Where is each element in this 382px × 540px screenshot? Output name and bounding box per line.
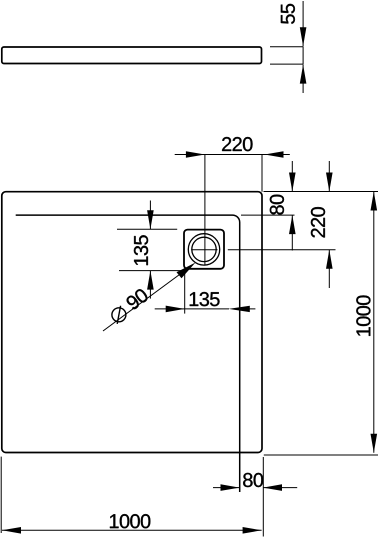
leader arrowhead [177,263,196,279]
arrow 220 top left [186,151,205,158]
arrow 1000 right bottom [371,434,378,453]
label 1000 right [356,295,370,335]
dimension 1000 bottom: line [2,529,262,531]
arrow 80 bottom right [263,484,282,491]
arrow 55 top [300,27,307,46]
label 220 right [311,207,325,237]
label 220 top [222,137,252,151]
arrow 135 vert bottom [147,271,154,290]
tray outline 1000x1000 [2,192,262,453]
extension line drain top to left (135 vert) [117,228,177,230]
extension line drain left edge down (135 horiz) [184,269,186,314]
extension bottom edge to right [264,454,378,456]
drain center horizontal line / extension to right 220 dim [191,249,335,251]
dimension line 55 [302,1,304,93]
arrow 1000 right top [371,192,378,211]
label 1000 bottom [110,514,150,528]
dimension 220 right: line [328,161,330,288]
arrow 135 horiz left [166,306,185,313]
drain outer circle [188,234,219,265]
extension line bottom (55 dim) [270,63,303,65]
dimension 80 bottom: line [213,487,297,489]
leader line diameter 90 [103,269,187,331]
extension line left edge below square [0,457,2,533]
dimension 1000 right: line [373,192,375,453]
arrow 220 right bottom [326,250,333,269]
arrow 135 vert top [147,210,154,229]
drain center vertical line / extension to top 220 dim [204,154,206,266]
arrow 80 bottom left [221,484,240,491]
extension line top edge to right [264,191,379,193]
dimension 135 vertical: line [149,201,151,299]
arrow 1000 bottom left [2,527,21,534]
arrow 1000 bottom right [243,527,262,534]
dimension 135 horizontal: line [155,308,256,310]
dimension 220 top: line [175,154,290,156]
tray side profile [2,47,262,64]
inner rim line [16,215,240,492]
diameter symbol circle [112,308,126,322]
extension line top (55 dim) [270,46,303,48]
arrow 220 top right [265,151,284,158]
extension line inner rim to right [241,214,295,216]
arrow 55 bottom [300,65,307,84]
arrow 80 right bottom [289,215,296,234]
extension line drain bottom to left (135 vert) [119,270,187,272]
label 80 right [270,195,284,215]
diameter symbol slash [117,306,120,324]
dimension 80 right: line [291,161,293,251]
drain inner circle [192,237,216,261]
label diameter 90 [125,287,150,310]
extension right edge above square [261,155,263,192]
label 55 [281,4,295,24]
arrow 220 right top [326,173,333,192]
arrow 135 horiz right [229,306,250,312]
label 80 bottom [243,473,263,487]
label 135 vertical [134,235,148,265]
label 135 horizontal [190,292,220,306]
extension line outer right edge below square [262,457,264,537]
drain flange square [184,230,224,269]
arrow 80 right top [289,173,296,192]
